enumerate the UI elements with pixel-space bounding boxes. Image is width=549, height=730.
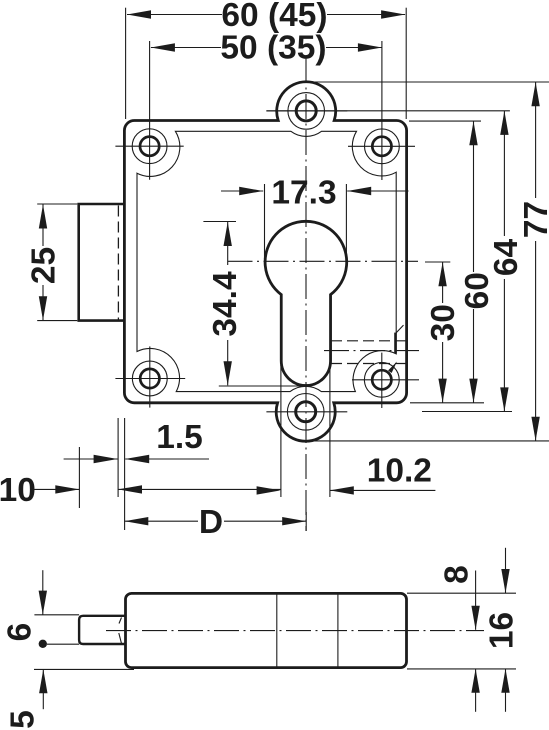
svg-text:64: 64: [488, 239, 525, 277]
svg-text:60: 60: [459, 272, 496, 309]
svg-text:D: D: [199, 504, 223, 541]
svg-text:16: 16: [484, 612, 521, 649]
svg-text:10.2: 10.2: [367, 453, 432, 490]
svg-text:25: 25: [26, 247, 63, 284]
svg-text:8: 8: [439, 565, 476, 584]
svg-text:10: 10: [0, 472, 36, 509]
svg-text:1.5: 1.5: [156, 419, 203, 456]
svg-text:17.3: 17.3: [271, 175, 336, 212]
svg-text:6: 6: [2, 623, 39, 642]
svg-text:30: 30: [425, 304, 462, 341]
svg-text:5: 5: [5, 710, 42, 729]
svg-text:77: 77: [518, 201, 549, 238]
svg-text:34.4: 34.4: [207, 271, 244, 337]
svg-text:50 (35): 50 (35): [220, 30, 326, 67]
